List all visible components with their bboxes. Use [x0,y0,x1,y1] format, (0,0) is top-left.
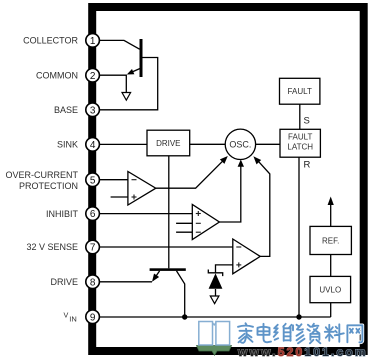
svg-text:FAULT: FAULT [288,87,312,96]
svg-text:6: 6 [90,209,96,220]
svg-text:INHIBIT: INHIBIT [46,209,79,219]
svg-text:LATCH: LATCH [287,143,313,152]
svg-text:PROTECTION: PROTECTION [19,181,78,191]
svg-text:www.520101.com: www.520101.com [237,345,368,359]
svg-text:OSC.: OSC. [229,139,251,149]
svg-text:V: V [64,311,69,320]
svg-text:1: 1 [90,36,96,47]
svg-text:IN: IN [69,314,77,323]
svg-text:4: 4 [90,140,96,151]
svg-text:DRIVE: DRIVE [156,139,180,148]
svg-text:9: 9 [90,312,96,323]
svg-text:5: 5 [90,175,96,186]
svg-text:SINK: SINK [57,140,78,150]
svg-text:COLLECTOR: COLLECTOR [23,36,78,46]
svg-text:7: 7 [90,243,96,254]
svg-text:BASE: BASE [54,105,78,115]
svg-text:UVLO: UVLO [319,286,341,295]
svg-text:DRIVE: DRIVE [50,277,78,287]
svg-text:OVER-CURRENT: OVER-CURRENT [5,170,78,180]
svg-text:S: S [304,116,310,127]
svg-text:R: R [304,160,311,171]
svg-text:3: 3 [90,105,96,116]
svg-text:REF.: REF. [322,237,339,246]
svg-text:2: 2 [90,71,96,82]
svg-text:COMMON: COMMON [36,70,78,80]
svg-text:32 V SENSE: 32 V SENSE [26,242,78,252]
svg-text:8: 8 [90,277,96,288]
svg-text:FAULT: FAULT [288,133,312,142]
